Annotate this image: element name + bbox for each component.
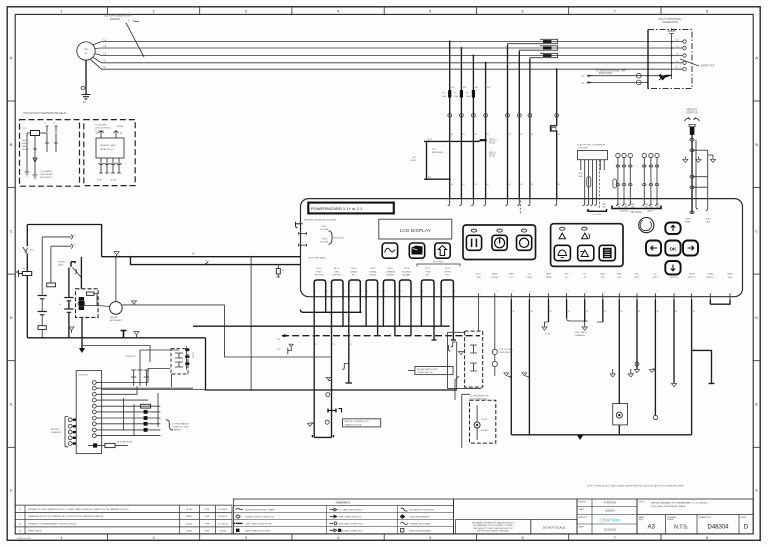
svg-text:UPDATE OF OUR DRAWING BLOCK TO: UPDATE OF OUR DRAWING BLOCK TO NEW CABLE… bbox=[28, 508, 129, 511]
svg-text:CBL(-): CBL(-) bbox=[489, 153, 496, 155]
loop tail 4b bbox=[377, 300, 379, 336]
svg-text:GEN: GEN bbox=[334, 271, 339, 273]
svg-text:(CUSTOMER USE): (CUSTOMER USE) bbox=[470, 398, 488, 400]
svg-text:A3: A3 bbox=[648, 525, 656, 531]
svg-text:BATTERY CHARGER 12V/: BATTERY CHARGER 12V/ bbox=[345, 420, 370, 423]
tail2 ground stub bbox=[328, 380, 331, 382]
svg-text:60: 60 bbox=[475, 134, 477, 136]
bus line L1 bbox=[102, 41, 684, 43]
svg-text:DRN BY: DRN BY bbox=[579, 501, 587, 503]
svg-text:OIL PRESSURE SW: OIL PRESSURE SW bbox=[470, 396, 489, 398]
governor wires bbox=[584, 170, 586, 198]
svg-text:(CHANNEL): (CHANNEL) bbox=[575, 334, 586, 337]
wire gen to bus L3 bbox=[95, 54, 102, 56]
svg-text:TITLE: TITLE bbox=[639, 501, 645, 503]
svg-text:29902: 29902 bbox=[186, 516, 193, 518]
svg-text:GOV-SIG: GOV-SIG bbox=[586, 211, 595, 213]
connector J1 pins bbox=[92, 381, 96, 385]
riser to thermo bbox=[170, 374, 172, 387]
svg-text:B: B bbox=[10, 142, 13, 147]
CT1 primary bar bbox=[543, 40, 552, 43]
svg-text:BATTERY MOUNTING SYSTEM: BATTERY MOUNTING SYSTEM bbox=[304, 219, 336, 222]
engage blade bbox=[73, 268, 82, 278]
3pin connector bbox=[186, 346, 188, 369]
pin wire r1 bbox=[102, 382, 148, 384]
svg-text:LINK: LINK bbox=[578, 176, 583, 178]
svg-text:1: 1 bbox=[604, 291, 605, 293]
svg-text:1: 1 bbox=[361, 291, 362, 293]
svg-text:30: 30 bbox=[531, 311, 533, 313]
terminal ring bbox=[81, 86, 84, 89]
loop tail 7b bbox=[433, 300, 435, 341]
svg-text:30: 30 bbox=[604, 311, 606, 313]
branch feed jog bbox=[131, 257, 301, 265]
switch S01 bbox=[23, 247, 28, 254]
wire fuel-sol left bbox=[510, 300, 512, 435]
svg-text:1: 1 bbox=[711, 291, 712, 293]
oil pressure dashed box bbox=[470, 400, 496, 443]
button event-log bbox=[599, 245, 615, 260]
vert 224 jog bbox=[225, 305, 332, 357]
svg-text:CUSTOMER MINIMUM 2: CUSTOMER MINIMUM 2 bbox=[410, 517, 430, 519]
svg-text:PIN CONN: PIN CONN bbox=[630, 212, 642, 214]
mag pickup connector bbox=[71, 262, 75, 267]
svg-text:TO MONSOON PANEL TRIP: TO MONSOON PANEL TRIP bbox=[596, 69, 626, 72]
svg-text:60: 60 bbox=[521, 184, 523, 186]
bus1 T-stub bbox=[121, 331, 127, 338]
remote connector block bbox=[690, 127, 695, 135]
svg-text:GFE: GFE bbox=[205, 509, 210, 511]
svg-text:D: D bbox=[10, 315, 13, 320]
POWERWIZARD title box bbox=[308, 203, 394, 214]
svg-text:C: C bbox=[10, 228, 13, 233]
svg-text:RELAY ROLLO: RELAY ROLLO bbox=[100, 148, 114, 151]
svg-text:EXHAUST TEMP: EXHAUST TEMP bbox=[100, 144, 116, 147]
bottom bus bbox=[511, 434, 691, 436]
CT meter circle 1 bbox=[636, 73, 641, 78]
remarks legend bbox=[233, 499, 453, 534]
relay loop 1 bbox=[314, 280, 326, 300]
svg-text:C: C bbox=[755, 228, 758, 233]
battery terminal bbox=[16, 270, 22, 277]
wire fuel-sol right bbox=[528, 300, 530, 435]
row bus bbox=[101, 388, 103, 390]
svg-text:6A GLASS FUSE: 6A GLASS FUSE bbox=[117, 441, 133, 444]
relay K2 body bbox=[96, 138, 124, 158]
svg-text:60: 60 bbox=[475, 184, 477, 186]
svg-text:RLY1: RLY1 bbox=[317, 268, 323, 270]
svg-text:RELAY: RELAY bbox=[22, 148, 29, 151]
svg-text:PL6 ONLY: PL6 ONLY bbox=[433, 262, 444, 264]
bat box part bbox=[465, 331, 483, 387]
res R5 bbox=[141, 404, 151, 408]
J2 pin marks bbox=[73, 419, 76, 421]
svg-text:60: 60 bbox=[451, 134, 453, 136]
svg-text:AUX: AUX bbox=[601, 273, 606, 276]
starter inner fuse bbox=[87, 292, 95, 295]
svg-text:CAN-SHD: CAN-SHD bbox=[620, 210, 629, 213]
svg-text:60: 60 bbox=[451, 184, 453, 186]
svg-text:POWER (AVC) M: POWER (AVC) M bbox=[417, 371, 433, 374]
svg-text:ALARM: ALARM bbox=[403, 273, 410, 276]
svg-text:TO ENGINE: TO ENGINE bbox=[95, 125, 107, 127]
svg-text:TUBE CABLE CONNECTION: TUBE CABLE CONNECTION bbox=[339, 529, 363, 532]
starter wire top bbox=[80, 257, 82, 289]
svg-text:KYMATION: KYMATION bbox=[604, 502, 617, 505]
starter motor M1 bbox=[110, 302, 123, 315]
svg-text:28.0037-C: 28.0037-C bbox=[218, 516, 229, 518]
svg-text:RLY4: RLY4 bbox=[370, 268, 376, 270]
svg-text:COMMON: COMMON bbox=[385, 271, 395, 273]
svg-text:16045: 16045 bbox=[186, 523, 193, 525]
breaker symbol bbox=[659, 75, 672, 81]
fuse drop at x=449.7 bbox=[449, 42, 451, 199]
svg-text:PORT CAB 1: PORT CAB 1 bbox=[575, 331, 586, 334]
svg-text:ATTENDANT: ATTENDANT bbox=[110, 319, 123, 322]
load terminal L1 bbox=[683, 40, 686, 43]
svg-text:1: 1 bbox=[512, 291, 513, 293]
svg-text:FUEL: FUEL bbox=[316, 271, 322, 273]
svg-text:2x: 2x bbox=[59, 304, 61, 306]
loop tail 3b bbox=[359, 300, 361, 313]
load box UTILITY (OPTIONAL) bbox=[648, 30, 692, 89]
svg-text:SIGNAL: SIGNAL bbox=[369, 270, 377, 273]
fuse F01 bbox=[22, 272, 31, 276]
relay K1 contacts bbox=[46, 126, 49, 132]
svg-text:COMBI TDC FUEL: COMBI TDC FUEL bbox=[172, 427, 190, 429]
remote wire tail bbox=[706, 200, 708, 210]
svg-text:RLY6: RLY6 bbox=[404, 268, 410, 270]
svg-text:G: G bbox=[128, 20, 130, 23]
svg-text:10A: 10A bbox=[442, 95, 446, 98]
svg-text:D: D bbox=[755, 315, 758, 320]
fuel solenoid box bbox=[613, 404, 628, 425]
grounds above bus1 bbox=[69, 327, 74, 330]
remote grounds bbox=[683, 159, 688, 162]
stub 548 bbox=[548, 300, 550, 323]
circle on tail bbox=[326, 393, 330, 397]
mesh vert 1 bbox=[123, 398, 125, 430]
svg-text:FORM 4-2-F-01: FORM 4-2-F-01 bbox=[17, 538, 32, 540]
svg-text:30: 30 bbox=[675, 311, 677, 313]
svg-text:APPD BY: APPD BY bbox=[579, 516, 588, 519]
svg-text:SNSR: SNSR bbox=[708, 274, 714, 276]
svg-text:POWERWIZARD 1.1+ or 2.1: POWERWIZARD 1.1+ or 2.1 bbox=[311, 206, 363, 211]
alarm icon 2 bbox=[582, 227, 587, 230]
svg-text:ENGINE EARTH 2M41: ENGINE EARTH 2M41 bbox=[417, 368, 438, 371]
svg-text:MAGN: MAGN bbox=[492, 273, 499, 276]
svg-text:PRES: PRES bbox=[527, 277, 533, 279]
svg-text:60: 60 bbox=[521, 134, 523, 136]
svg-text:SIZE: SIZE bbox=[639, 519, 644, 521]
loop tail 4 bbox=[365, 300, 367, 327]
CT3 secondary loop bbox=[530, 53, 558, 58]
svg-text:HIGH: HIGH bbox=[22, 140, 28, 142]
CT2 secondary drop bbox=[518, 51, 520, 198]
svg-text:RELAY: RELAY bbox=[370, 273, 377, 276]
svg-text:11: 11 bbox=[73, 244, 75, 246]
load terminal L2 bbox=[683, 46, 686, 49]
svg-text:RLY7: RLY7 bbox=[425, 268, 431, 270]
svg-text:LCD DISPLAY: LCD DISPLAY bbox=[400, 228, 432, 234]
svg-text:HIGH EXHAUST TEMPERATURE RELAY: HIGH EXHAUST TEMPERATURE RELAY bbox=[24, 112, 67, 115]
relay box 1 dashed bbox=[20, 120, 80, 187]
button STOP bbox=[521, 229, 526, 232]
loop tail 3 bbox=[348, 300, 350, 384]
svg-text:D.C. CABLE JUNCTION BOX: D.C. CABLE JUNCTION BOX bbox=[339, 509, 364, 512]
wire gen to bus L2 bbox=[95, 47, 102, 50]
svg-text:1: 1 bbox=[675, 291, 676, 293]
svg-text:GENERATOR: GENERATOR bbox=[662, 21, 678, 24]
bus1 corner down bbox=[206, 338, 457, 390]
svg-text:60: 60 bbox=[558, 134, 560, 136]
svg-text:RLY: RLY bbox=[445, 274, 450, 276]
wire vertical 51 bbox=[50, 246, 52, 283]
svg-text:LAMP CONNECTION SOCKET: LAMP CONNECTION SOCKET bbox=[245, 529, 271, 532]
svg-text:GFE: GFE bbox=[205, 516, 210, 518]
svg-text:CONTROL: CONTROL bbox=[314, 274, 325, 276]
bus wire B bbox=[193, 325, 450, 327]
button right bbox=[683, 241, 698, 256]
ground on feed bbox=[114, 252, 119, 255]
svg-text:STANDBY 6CC/2A: STANDBY 6CC/2A bbox=[345, 423, 362, 426]
drawing note box bbox=[456, 520, 531, 534]
svg-text:N: N bbox=[104, 60, 106, 63]
connector triple A bbox=[616, 153, 620, 157]
governor pins bbox=[580, 160, 582, 170]
svg-text:1: 1 bbox=[731, 291, 732, 293]
svg-text:NOTE: 1 WIRE (A) NOT USED ON A: NOTE: 1 WIRE (A) NOT USED ON AVR CAN BE … bbox=[587, 485, 684, 488]
battery bracket bbox=[427, 140, 480, 179]
loop tail 6b bbox=[410, 300, 412, 336]
bat box caps bbox=[470, 345, 477, 353]
oil pressure switch bbox=[474, 422, 480, 428]
svg-text:E3 E4: E3 E4 bbox=[97, 180, 102, 182]
PL6 ONLY bracket bbox=[417, 264, 460, 267]
relay loop 6 bbox=[400, 280, 412, 300]
svg-text:E1: E1 bbox=[96, 133, 98, 135]
relay K1 bottom bbox=[25, 168, 30, 176]
svg-text:30: 30 bbox=[513, 311, 515, 313]
fuse drop at x=473.4 bbox=[472, 56, 474, 199]
wire main left vertical bbox=[26, 225, 28, 338]
svg-text:1: 1 bbox=[435, 291, 436, 293]
loop tail 1 bbox=[313, 300, 315, 438]
svg-text:3~: 3~ bbox=[84, 51, 88, 55]
battery A bars bbox=[38, 296, 47, 315]
svg-text:RLY3: RLY3 bbox=[351, 268, 357, 270]
button engine-overview bbox=[409, 243, 424, 258]
earth E1 bbox=[82, 95, 91, 99]
mesh vert 2 bbox=[133, 404, 135, 435]
svg-text:21: 21 bbox=[333, 344, 335, 346]
svg-text:ALARM: ALARM bbox=[387, 273, 394, 276]
controller PowerWizard outline bbox=[301, 199, 743, 297]
label box engine bbox=[415, 367, 453, 375]
svg-text:30: 30 bbox=[621, 311, 623, 313]
loop tail 8b bbox=[452, 300, 454, 341]
svg-text:FUSE CABLE CONNECTION: FUSE CABLE CONNECTION bbox=[339, 522, 363, 525]
svg-text:1: 1 bbox=[656, 291, 657, 293]
svg-text:5 BLACK: 5 BLACK bbox=[481, 429, 490, 432]
svg-text:16342: 16342 bbox=[186, 531, 193, 533]
starter dashed box bbox=[76, 289, 99, 318]
sens wires bbox=[478, 300, 480, 332]
wire gen to bus L1 bbox=[93, 42, 102, 46]
svg-text:30: 30 bbox=[550, 311, 552, 313]
pin wire r6 bbox=[102, 411, 161, 413]
svg-text:BATTERY: BATTERY bbox=[51, 428, 61, 431]
svg-text:60: 60 bbox=[463, 184, 465, 186]
svg-text:INDICATION: INDICATION bbox=[599, 72, 612, 75]
bracket to preheat bbox=[166, 420, 173, 430]
loop tail 8 bbox=[440, 300, 442, 327]
svg-text:1: 1 bbox=[586, 291, 587, 293]
bus line N bbox=[102, 62, 684, 64]
long wire up bbox=[140, 350, 179, 362]
svg-text:1: 1 bbox=[350, 291, 351, 293]
bus line L3 bbox=[102, 55, 684, 57]
svg-text:1: 1 bbox=[327, 291, 328, 293]
svg-text:10A: 10A bbox=[454, 95, 458, 98]
svg-text:GND: GND bbox=[728, 277, 733, 279]
bus line E bbox=[102, 68, 684, 70]
utility junction dots bbox=[671, 41, 673, 43]
oil sw feed bbox=[455, 376, 459, 400]
svg-text:AUDIBLE: AUDIBLE bbox=[402, 270, 412, 273]
svg-text:START: START bbox=[685, 221, 692, 224]
mesh vert 3 bbox=[157, 393, 159, 427]
ground 314 stub bbox=[310, 422, 314, 424]
svg-text:60: 60 bbox=[531, 184, 533, 186]
svg-text:SPD: SPD bbox=[565, 274, 570, 276]
gap cell bbox=[454, 499, 578, 534]
pin wire r2 bbox=[102, 387, 193, 389]
svg-text:GOV: GOV bbox=[578, 173, 583, 175]
wire generator to earth bbox=[85, 60, 87, 94]
wire hooks at controller top bbox=[448, 198, 450, 206]
bracket MOD bbox=[329, 231, 333, 245]
svg-text:HORN: HORN bbox=[444, 271, 451, 273]
svg-text:RLY2: RLY2 bbox=[334, 268, 340, 270]
svg-text:DO NOT SCALE: DO NOT SCALE bbox=[543, 525, 565, 529]
arrow PD2 bbox=[588, 82, 592, 84]
remote pair wire bbox=[695, 140, 697, 207]
button group A frame bbox=[463, 225, 536, 260]
wire level2 bbox=[42, 236, 71, 238]
svg-text:60: 60 bbox=[487, 184, 489, 186]
svg-text:TRT ADJ: TRT ADJ bbox=[58, 261, 66, 264]
loop tail 5b bbox=[394, 300, 396, 336]
button alarm-view bbox=[578, 245, 594, 260]
svg-text:60: 60 bbox=[487, 134, 489, 136]
loop tail 6 bbox=[399, 300, 401, 327]
svg-text:ANLG: ANLG bbox=[671, 273, 677, 276]
svg-text:SNSR: SNSR bbox=[546, 277, 552, 279]
svg-text:1: 1 bbox=[620, 291, 621, 293]
generator G1 bbox=[77, 42, 95, 60]
svg-text:DATE: DATE bbox=[579, 508, 585, 511]
svg-text:TEMP RELAY: TEMP RELAY bbox=[40, 173, 53, 176]
triple bracket bbox=[612, 206, 661, 209]
grounds right field bbox=[612, 369, 614, 374]
svg-text:OK: OK bbox=[669, 247, 677, 252]
alarm icon 1 bbox=[560, 227, 565, 230]
svg-text:1: 1 bbox=[379, 291, 380, 293]
svg-text:SCALE: SCALE bbox=[667, 518, 674, 521]
terminal hook top left bbox=[296, 222, 303, 228]
svg-text:SPLY: SPLY bbox=[653, 277, 659, 279]
svg-text:RLY: RLY bbox=[352, 274, 357, 276]
svg-text:1: 1 bbox=[396, 291, 397, 293]
pin wire r8 bbox=[102, 423, 161, 425]
svg-text:15.362: 15.362 bbox=[186, 509, 193, 511]
CT3 primary bar bbox=[543, 54, 552, 57]
svg-text:E2: E2 bbox=[120, 133, 122, 135]
sens circle 2 bbox=[492, 361, 497, 366]
loop tail 7 bbox=[420, 300, 422, 327]
svg-text:CROSSOVER/CROSSING - WIRING: CROSSOVER/CROSSING - WIRING bbox=[245, 510, 275, 512]
svg-text:MOD 1001: MOD 1001 bbox=[334, 238, 345, 240]
E drop wire bbox=[556, 69, 558, 126]
svg-text:INPUT-1: INPUT-1 bbox=[706, 277, 715, 279]
dashed line left arrow bbox=[283, 335, 288, 337]
sens circle 1 bbox=[492, 349, 497, 354]
svg-text:ECU: ECU bbox=[476, 274, 481, 276]
wire 619 bbox=[618, 300, 620, 404]
pin wire r5 bbox=[102, 405, 161, 407]
svg-text:RLY: RLY bbox=[426, 274, 431, 276]
wire top loop bbox=[27, 225, 101, 257]
svg-text:1: 1 bbox=[412, 291, 413, 293]
block feed wire bbox=[102, 389, 206, 391]
svg-text:START UP: START UP bbox=[686, 112, 698, 115]
svg-text:1: 1 bbox=[550, 291, 551, 293]
relay K1 coil bbox=[31, 131, 40, 136]
knob circle bbox=[639, 218, 654, 233]
svg-text:CAN-LO: CAN-LO bbox=[647, 210, 655, 213]
svg-text:60: 60 bbox=[531, 134, 533, 136]
wire vertical 69 bbox=[68, 268, 70, 338]
starter feed drop bbox=[81, 317, 83, 348]
svg-text:PICKUP: PICKUP bbox=[491, 277, 499, 279]
wire motor right bbox=[122, 304, 224, 306]
svg-text:CHANGES IN CKT OF CURRENT RLY: CHANGES IN CKT OF CURRENT RLY OUTPUT FOR… bbox=[28, 515, 104, 518]
sign block bbox=[577, 499, 637, 534]
load box antenna bbox=[671, 34, 673, 80]
svg-text:CONNECTOR/GND CONNECTION: CONNECTOR/GND CONNECTION bbox=[245, 517, 274, 519]
diodes D1-D4 bbox=[144, 410, 148, 414]
CT1 secondary drop bbox=[507, 45, 509, 198]
svg-text:CRANK: CRANK bbox=[350, 270, 358, 273]
button RUN bbox=[471, 229, 476, 232]
svg-text:ISSUE: ISSUE bbox=[741, 517, 747, 519]
svg-text:E5 E6: E5 E6 bbox=[111, 180, 116, 182]
svg-text:CBL(+): CBL(+) bbox=[489, 140, 497, 142]
pin wire r7 bbox=[102, 417, 161, 419]
fuse drop at x=461.4 bbox=[460, 48, 462, 198]
loop tails U bottom bbox=[312, 435, 333, 437]
arrow PD1 bbox=[588, 75, 592, 77]
svg-text:PL6/: PL6/ bbox=[322, 226, 327, 228]
wire level3 bbox=[51, 245, 71, 247]
svg-text:STERNAL FUEL STRAND: STERNAL FUEL STRAND bbox=[410, 522, 432, 525]
svg-text:60: 60 bbox=[509, 184, 511, 186]
svg-text:BOXD: BOXD bbox=[411, 160, 417, 162]
relay loop 2 bbox=[332, 280, 344, 300]
bus2 bbox=[82, 346, 150, 363]
svg-text:TO PRE-HEATING: TO PRE-HEATING bbox=[172, 423, 189, 426]
